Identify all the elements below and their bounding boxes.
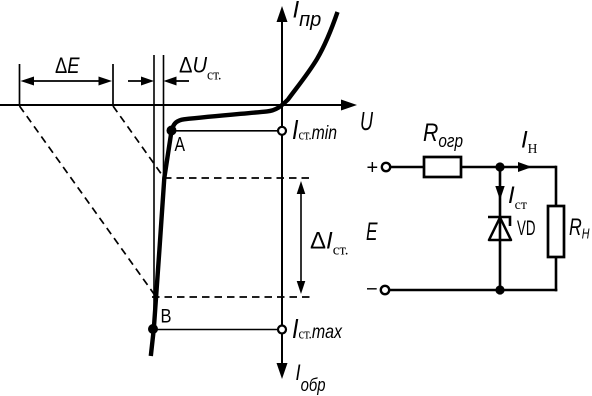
point A dot	[167, 126, 177, 136]
svg-text:U: U	[360, 106, 373, 136]
zener diode VD: triangle	[489, 218, 511, 241]
U axis (horizontal)	[0, 100, 373, 137]
ΔI_ст double arrow	[297, 181, 306, 294]
open circle I_ст.max	[278, 326, 286, 334]
resistor R_огр box	[424, 157, 461, 177]
junction dot bottom	[495, 285, 504, 294]
thin line from A to axis	[172, 130, 279, 132]
I_ст arrowhead (down)	[495, 186, 504, 200]
zener diode VD: cathode bar with hook	[488, 217, 510, 226]
ΔU vertical thin line left	[153, 55, 155, 329]
right vertical wire	[555, 166, 558, 206]
svg-text:VD: VD	[517, 217, 536, 240]
thin line from B to axis	[153, 329, 278, 331]
dashed horizontal upper (I_ст.min level)	[164, 177, 311, 179]
bottom wire	[390, 289, 558, 292]
svg-text:ΔE: ΔE	[55, 53, 80, 78]
ΔE measure ticks	[19, 64, 21, 106]
ΔU vertical thin line right	[163, 55, 165, 175]
zener branch wire upper	[499, 167, 502, 240]
wire R_огр to corner	[461, 166, 556, 169]
plus terminal open circle	[382, 163, 390, 171]
svg-text:E: E	[366, 218, 378, 246]
minus terminal open circle	[381, 286, 389, 294]
open circle I_ст.min	[278, 127, 286, 135]
dashed projection diagonal from right tick	[113, 106, 164, 177]
dashed projection diagonal from left tick	[20, 106, 155, 294]
zener branch wire lower	[499, 240, 502, 290]
resistor R_н box	[548, 206, 564, 257]
svg-text:A: A	[175, 134, 186, 156]
wire R_н bottom	[555, 257, 558, 291]
ΔU_ст arrows	[128, 77, 189, 86]
wire terminal to R_огр	[391, 166, 425, 169]
point B dot	[148, 324, 158, 334]
dashed horizontal lower (I_ст.max level)	[152, 296, 311, 298]
I axis (vertical)	[277, 6, 288, 379]
junction dot top	[495, 162, 504, 171]
I_н arrowhead on wire	[518, 162, 532, 172]
svg-text:B: B	[161, 307, 172, 328]
svg-text:−: −	[366, 279, 378, 301]
diode I-V curve	[151, 12, 338, 356]
ΔE double arrow	[21, 77, 113, 86]
svg-text:+: +	[367, 157, 379, 179]
